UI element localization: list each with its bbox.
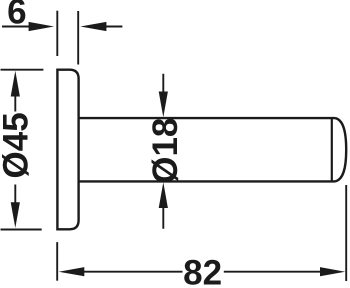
dim 6: left arrowhead (29, 22, 54, 31)
dim O18: upper arrowhead (159, 92, 168, 118)
shaft domed end (335, 118, 346, 181)
dim 82: right dimension line (224, 271, 321, 273)
dim O45: top extension line (1, 69, 44, 71)
dim 6: left extension line (56, 11, 58, 56)
dim 82: left dimension line (84, 271, 183, 273)
shaft end tangent line (331, 118, 333, 181)
flange (disc) outline (57, 70, 78, 230)
dim 82: right arrowhead (320, 267, 345, 276)
dim O45: upper arrowhead (11, 71, 20, 97)
dim O18: upper leader line (162, 74, 164, 92)
dim O45: upper dimension line (14, 96, 16, 112)
dim 82: right extension line (345, 185, 347, 281)
svg-text:Ø45: Ø45 (0, 112, 36, 178)
dim 6: right arrowhead (80, 22, 106, 31)
svg-text:Ø18: Ø18 (146, 118, 185, 184)
shaft top line (79, 117, 335, 119)
svg-text:6: 6 (7, 0, 26, 32)
dim O18: lower arrowhead (159, 182, 168, 208)
dim O45: bottom extension line (1, 229, 42, 231)
dim O18: lower leader line (162, 208, 164, 229)
shaft bottom line (79, 180, 335, 182)
dim 6: right dimension line (106, 26, 123, 28)
dim O45: lower arrowhead (11, 202, 20, 228)
svg-text:82: 82 (183, 254, 222, 288)
dim 82: left arrowhead (59, 267, 85, 276)
dim O45: lower dimension line (14, 185, 16, 203)
dim 6: left dimension line (2, 26, 30, 28)
dim 6: right extension line (77, 11, 79, 65)
dim 82: left extension line (56, 242, 58, 281)
